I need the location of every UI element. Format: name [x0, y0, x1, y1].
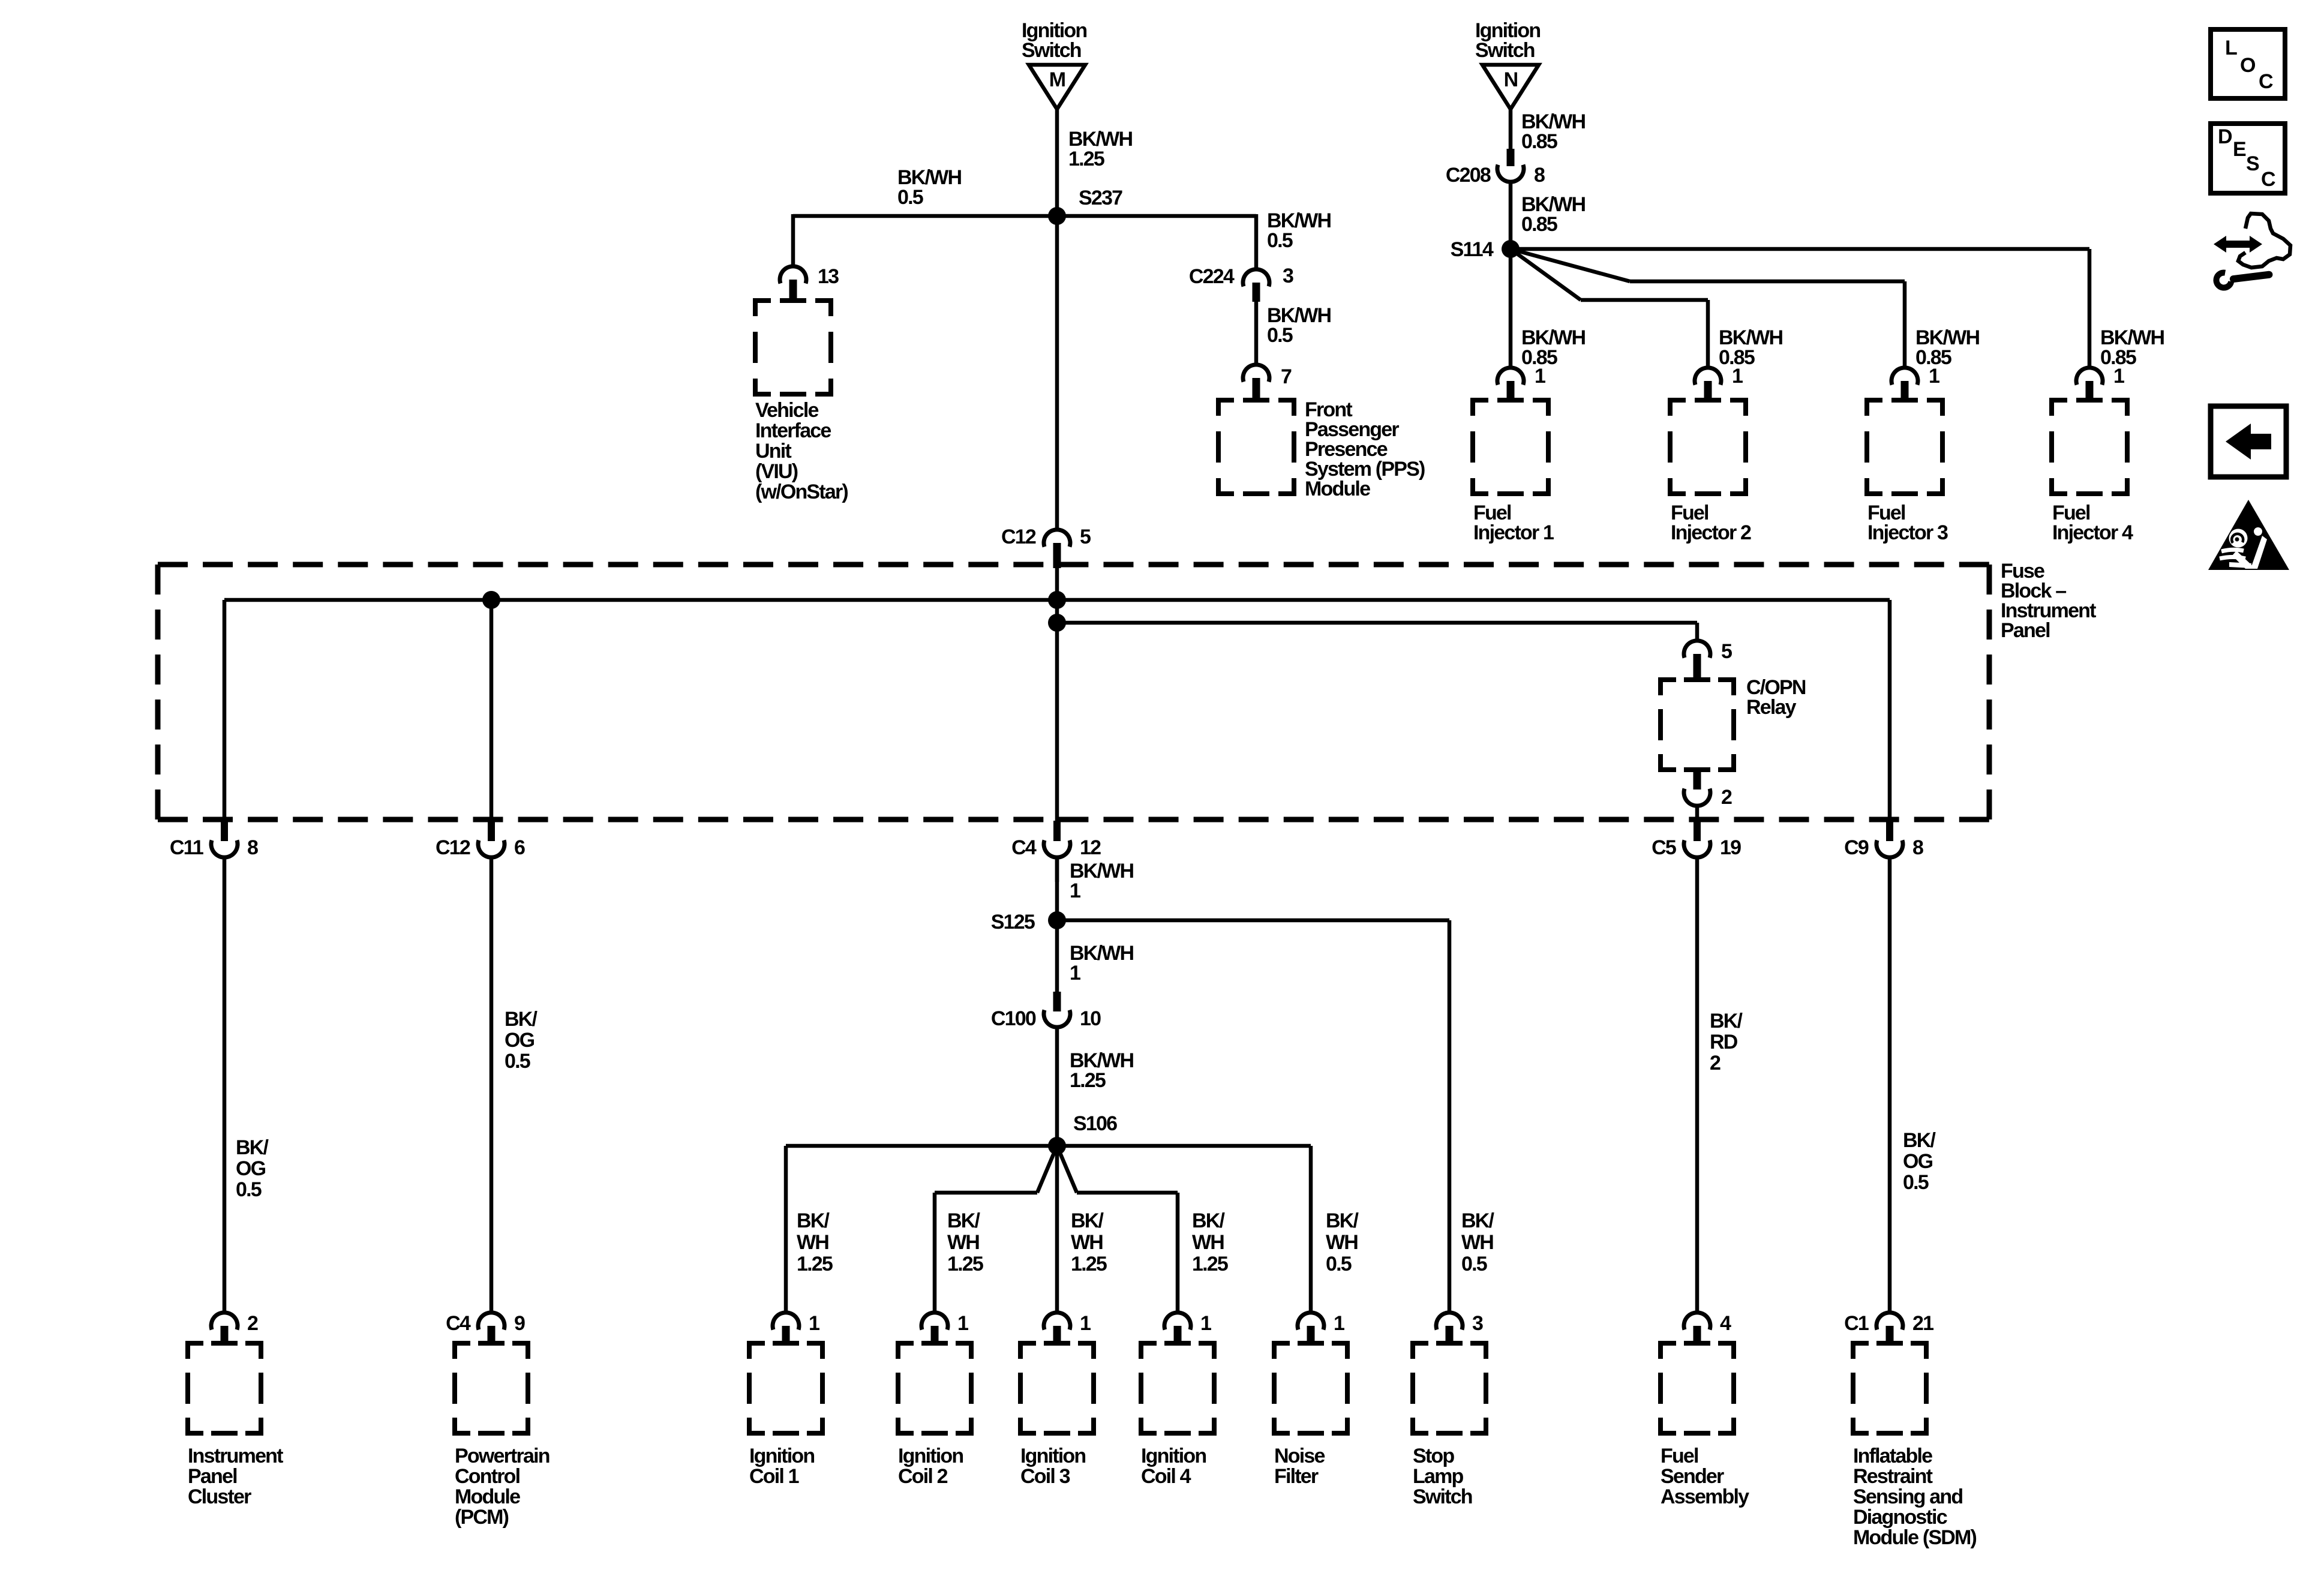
svg-text:Restraint: Restraint [1853, 1465, 1933, 1488]
svg-text:Relay: Relay [1746, 696, 1797, 719]
svg-text:0.5: 0.5 [1267, 229, 1293, 252]
svg-text:Sender: Sender [1661, 1465, 1724, 1488]
svg-text:WH: WH [1461, 1231, 1493, 1254]
svg-text:5: 5 [1080, 526, 1091, 548]
svg-text:BK/: BK/ [797, 1209, 830, 1232]
svg-text:2: 2 [1721, 786, 1732, 809]
svg-text:Fuel: Fuel [1661, 1445, 1698, 1467]
svg-text:Injector 1: Injector 1 [1473, 521, 1554, 544]
svg-text:1.25: 1.25 [947, 1253, 983, 1275]
svg-text:0.5: 0.5 [1267, 324, 1293, 347]
svg-text:0.85: 0.85 [1521, 213, 1557, 236]
svg-text:Vehicle: Vehicle [755, 399, 818, 422]
svg-text:S106: S106 [1073, 1112, 1117, 1135]
svg-text:OG: OG [236, 1157, 266, 1180]
svg-text:Switch: Switch [1413, 1485, 1472, 1508]
svg-text:Control: Control [455, 1465, 520, 1488]
svg-text:L: L [2225, 37, 2237, 59]
svg-text:9: 9 [514, 1312, 525, 1335]
svg-text:0.5: 0.5 [1326, 1253, 1352, 1275]
svg-text:D: D [2218, 125, 2232, 148]
svg-text:Module (SDM): Module (SDM) [1853, 1526, 1977, 1549]
svg-text:RD: RD [1710, 1031, 1738, 1053]
svg-text:(w/OnStar): (w/OnStar) [755, 481, 848, 503]
svg-text:1.25: 1.25 [1070, 1069, 1106, 1092]
svg-text:1: 1 [1070, 879, 1080, 902]
svg-text:BK/: BK/ [1903, 1129, 1936, 1152]
svg-text:BK/: BK/ [1461, 1209, 1495, 1232]
svg-text:Ignition: Ignition [749, 1445, 814, 1467]
svg-text:Interface: Interface [755, 419, 831, 442]
svg-text:8: 8 [247, 836, 258, 859]
svg-text:2: 2 [1710, 1052, 1721, 1074]
svg-text:8: 8 [1912, 836, 1923, 859]
svg-text:19: 19 [1720, 836, 1741, 859]
svg-text:Coil 4: Coil 4 [1141, 1465, 1191, 1488]
svg-text:C1: C1 [1844, 1312, 1869, 1335]
svg-text:Inflatable: Inflatable [1853, 1445, 1932, 1467]
svg-text:Powertrain: Powertrain [455, 1445, 550, 1467]
svg-text:Module: Module [1305, 478, 1370, 500]
svg-text:Ignition: Ignition [898, 1445, 963, 1467]
svg-text:0.5: 0.5 [897, 186, 923, 209]
svg-text:1: 1 [1080, 1312, 1091, 1335]
svg-text:1: 1 [2113, 365, 2124, 388]
svg-text:Injector 2: Injector 2 [1671, 521, 1751, 544]
svg-text:Coil 3: Coil 3 [1020, 1465, 1070, 1488]
svg-text:WH: WH [797, 1231, 828, 1254]
svg-text:C: C [2259, 70, 2273, 93]
svg-text:Diagnostic: Diagnostic [1853, 1506, 1947, 1529]
svg-text:1: 1 [1929, 365, 1939, 388]
svg-text:S237: S237 [1079, 187, 1122, 209]
svg-text:12: 12 [1080, 836, 1101, 859]
svg-text:BK/: BK/ [1326, 1209, 1359, 1232]
svg-text:S125: S125 [991, 911, 1035, 933]
svg-text:4: 4 [1720, 1312, 1731, 1335]
svg-text:C11: C11 [170, 836, 203, 859]
svg-text:S114: S114 [1451, 238, 1494, 261]
svg-text:S: S [2246, 152, 2259, 175]
svg-text:C4: C4 [1011, 836, 1037, 859]
svg-text:1: 1 [1732, 365, 1743, 388]
svg-text:WH: WH [1192, 1231, 1224, 1254]
svg-text:BK/: BK/ [1192, 1209, 1226, 1232]
svg-text:M: M [1049, 68, 1065, 91]
svg-text:Sensing and: Sensing and [1853, 1485, 1962, 1508]
svg-text:Switch: Switch [1475, 39, 1535, 62]
svg-text:0.85: 0.85 [1521, 130, 1557, 153]
svg-text:C4: C4 [446, 1312, 471, 1335]
svg-text:BK/: BK/ [236, 1136, 269, 1159]
svg-text:C9: C9 [1844, 836, 1869, 859]
svg-text:1: 1 [1334, 1312, 1344, 1335]
svg-text:Noise: Noise [1274, 1445, 1325, 1467]
svg-text:BK/: BK/ [505, 1008, 538, 1031]
svg-text:1: 1 [957, 1312, 968, 1335]
svg-text:1.25: 1.25 [1192, 1253, 1228, 1275]
svg-text:3: 3 [1472, 1312, 1483, 1335]
svg-text:OG: OG [505, 1029, 535, 1052]
svg-text:8: 8 [1534, 164, 1545, 187]
svg-text:C208: C208 [1446, 164, 1491, 187]
svg-text:5: 5 [1721, 640, 1732, 663]
svg-text:1.25: 1.25 [797, 1253, 833, 1275]
svg-text:Assembly: Assembly [1661, 1485, 1749, 1508]
svg-text:Module: Module [455, 1485, 520, 1508]
svg-text:BK/: BK/ [947, 1209, 981, 1232]
svg-text:3: 3 [1283, 265, 1293, 287]
svg-text:WH: WH [947, 1231, 979, 1254]
svg-text:0.5: 0.5 [505, 1050, 530, 1073]
svg-text:C12: C12 [1001, 526, 1036, 548]
svg-text:Coil 2: Coil 2 [898, 1465, 948, 1488]
svg-text:O: O [2240, 54, 2256, 77]
svg-text:OG: OG [1903, 1150, 1933, 1173]
svg-text:C5: C5 [1652, 836, 1676, 859]
svg-text:C: C [2261, 168, 2275, 191]
svg-text:1.25: 1.25 [1068, 148, 1104, 170]
svg-text:13: 13 [818, 265, 839, 288]
svg-text:Unit: Unit [755, 440, 791, 463]
svg-text:0.5: 0.5 [1461, 1253, 1487, 1275]
svg-text:Cluster: Cluster [188, 1485, 251, 1508]
svg-text:BK/: BK/ [1710, 1010, 1743, 1032]
svg-text:Panel: Panel [2001, 619, 2050, 642]
svg-text:1.25: 1.25 [1071, 1253, 1107, 1275]
svg-text:1: 1 [1200, 1312, 1211, 1335]
svg-text:7: 7 [1281, 365, 1292, 388]
svg-text:Injector 4: Injector 4 [2052, 521, 2133, 544]
svg-text:E: E [2233, 138, 2246, 161]
svg-text:WH: WH [1326, 1231, 1358, 1254]
svg-text:Switch: Switch [1022, 39, 1081, 62]
svg-text:6: 6 [514, 836, 525, 859]
svg-text:Ignition: Ignition [1141, 1445, 1206, 1467]
svg-text:Lamp: Lamp [1413, 1465, 1464, 1488]
svg-text:Ignition: Ignition [1020, 1445, 1085, 1467]
svg-text:Filter: Filter [1274, 1465, 1319, 1488]
svg-text:0.5: 0.5 [1903, 1171, 1929, 1194]
svg-text:21: 21 [1912, 1312, 1933, 1335]
svg-text:0.5: 0.5 [236, 1178, 262, 1201]
svg-text:Instrument: Instrument [188, 1445, 283, 1467]
svg-text:C224: C224 [1189, 265, 1235, 288]
svg-text:Stop: Stop [1413, 1445, 1454, 1467]
svg-text:(VIU): (VIU) [755, 460, 798, 483]
svg-text:Injector 3: Injector 3 [1867, 521, 1948, 544]
svg-text:10: 10 [1080, 1007, 1101, 1030]
svg-text:1: 1 [809, 1312, 819, 1335]
svg-text:1: 1 [1070, 962, 1080, 984]
svg-text:BK/: BK/ [1071, 1209, 1104, 1232]
svg-text:Coil 1: Coil 1 [749, 1465, 799, 1488]
svg-text:N: N [1504, 68, 1518, 91]
svg-text:WH: WH [1071, 1231, 1103, 1254]
svg-text:1: 1 [1535, 365, 1545, 388]
svg-text:2: 2 [247, 1312, 258, 1335]
svg-text:C12: C12 [436, 836, 470, 859]
svg-text:C100: C100 [991, 1007, 1036, 1030]
svg-text:(PCM): (PCM) [455, 1506, 509, 1529]
svg-text:Panel: Panel [188, 1465, 237, 1488]
